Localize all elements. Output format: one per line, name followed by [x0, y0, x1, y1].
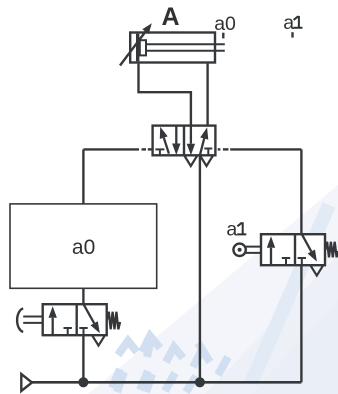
pilot line left of V1 (dashed near valve) [83, 148, 139, 150]
cylinder A piston [136, 34, 139, 62]
supply wire V2 to rail [82, 336, 84, 383]
svg-text:a0: a0 [214, 13, 236, 35]
wire cylinder right port to valve V1 port 2 [206, 64, 208, 126]
valve V2 mushroom button actuator [23, 317, 43, 323]
valve V1 right cell blocked port T [204, 149, 212, 156]
wire box a0 to valve V2 [82, 288, 84, 304]
valve V2 3/2 body [43, 304, 107, 335]
junction dot middle [195, 377, 205, 387]
cylinder A adjustability arrow [120, 32, 146, 66]
tick a0 [222, 33, 224, 39]
junction dot left [78, 377, 88, 387]
valve V1 right cell diagonal arrow [200, 139, 204, 156]
supply wire V1 to rail [199, 155, 201, 382]
valve V3 left cell up arrow [270, 248, 272, 265]
valve V1 5/2 body [153, 126, 216, 156]
valve V3 exhaust triangle [311, 266, 323, 276]
compressed air source triangle [21, 374, 32, 391]
pilot line right of V1 (dashed near valve) [218, 148, 221, 150]
watermark deeper corner [252, 300, 338, 394]
cylinder A piston rod [146, 44, 225, 51]
svg-text:A: A [162, 3, 180, 31]
valve V3 3/2 body (a1) [261, 234, 325, 265]
valve V3 divider [294, 234, 296, 265]
valve V3 return spring [325, 242, 338, 257]
valve V1 left cell down arrow [175, 126, 177, 144]
valve V2 left cell up arrow [52, 318, 54, 335]
valve V1 right cell down arrow [190, 126, 192, 144]
valve V1 exhaust triangle port 5 [185, 156, 197, 166]
watermark mid tint [205, 255, 338, 394]
cylinder A body [130, 33, 215, 63]
valve V2 return spring [107, 312, 120, 330]
valve V2 left cell blocked T [64, 328, 72, 335]
svg-text:a: a [226, 218, 237, 240]
tick a1 [291, 32, 293, 37]
valve V1 exhaust triangle port 3 [200, 156, 212, 166]
wire pilot right down to valve a1 [300, 149, 302, 234]
valve V3 left cell blocked T [282, 258, 290, 265]
watermark logo glyphs bottom-left [112, 336, 228, 392]
valve V1 divider [183, 126, 185, 156]
valve V2 divider [75, 304, 77, 335]
valve V2 right cell blocked T (supply) [79, 328, 87, 335]
svg-text:a0: a0 [72, 236, 95, 259]
valve V1 left cell blocked port T [155, 149, 164, 155]
watermark giant letter stroke [251, 205, 329, 383]
valve V3 right cell diagonal arrow to exhaust [302, 234, 312, 251]
wire cylinder left port to valve V1 port 4 [139, 64, 191, 126]
valve V2 right cell diagonal arrow to exhaust [84, 304, 95, 323]
bottom supply rail [32, 381, 301, 384]
valve V3 right cell blocked T (supply) [298, 258, 306, 265]
valve V3 roller dot [238, 248, 242, 252]
valve V1 left cell diagonal arrow [164, 138, 169, 154]
box a0 [10, 204, 157, 288]
valve V3 roller circle [233, 244, 245, 256]
supply wire V3 to rail [300, 266, 302, 383]
watermark pale field bottom-right [88, 185, 338, 394]
cylinder A cushion block [140, 40, 146, 55]
valve V3 roller actuator rod [246, 247, 261, 253]
valve V2 exhaust triangle [92, 336, 104, 346]
svg-text:a: a [283, 12, 294, 34]
wire pilot left down to box a0 [82, 149, 84, 204]
